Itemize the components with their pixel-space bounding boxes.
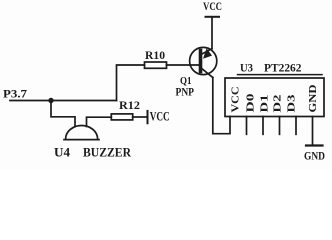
pin stub D0 [246, 117, 248, 135]
wire buzzer right terminal to R12 [87, 117, 112, 126]
wire R10 to Q1 base [167, 64, 200, 66]
wire collector down and to U3 pin VCC [213, 78, 230, 134]
power VCC bar (right) [147, 111, 149, 123]
svg-text:P3.7: P3.7 [3, 87, 27, 101]
wire P3.7 horizontal [10, 100, 117, 102]
wire junction to buzzer left terminal [51, 101, 75, 127]
pin stub D2 [279, 117, 281, 135]
transistor Q1 base bar [199, 51, 203, 72]
power VCC top bar [206, 16, 220, 18]
svg-text:PT2262: PT2262 [264, 62, 302, 74]
IC U3 box [225, 78, 324, 117]
ground bar [306, 144, 323, 146]
wire VCC to emitter [211, 17, 213, 49]
svg-text:R12: R12 [119, 98, 140, 112]
wire riser to R10 [117, 65, 145, 101]
junction dot [48, 98, 53, 103]
svg-text:VCC: VCC [150, 109, 170, 123]
svg-text:D0: D0 [246, 94, 257, 113]
transistor Q1 collector line [201, 68, 213, 78]
wire R12 to VCC bar [133, 116, 147, 118]
svg-text:U4: U4 [54, 145, 71, 160]
resistor R12 [111, 114, 132, 120]
svg-text:U3: U3 [240, 62, 253, 74]
transistor Q1 circle [190, 47, 217, 74]
svg-text:PNP: PNP [176, 85, 195, 99]
svg-text:R10: R10 [145, 48, 165, 62]
transistor Q1 emitter line [201, 49, 212, 55]
svg-text:D3: D3 [286, 95, 297, 113]
pin stub D3 [295, 117, 297, 135]
svg-text:VCC: VCC [203, 1, 222, 13]
svg-text:GND: GND [308, 84, 319, 112]
buzzer U4 dome [66, 126, 98, 140]
svg-text:BUZZER: BUZZER [83, 145, 132, 160]
transistor Q1 emitter arrow (PNP, points into base) [203, 48, 212, 59]
svg-text:VCC: VCC [230, 87, 241, 113]
svg-text:D2: D2 [273, 95, 284, 113]
svg-text:GND: GND [304, 148, 325, 162]
svg-text:D1: D1 [260, 95, 271, 113]
buzzer base line [64, 139, 99, 141]
pin wire GND [312, 117, 314, 146]
resistor R10 [145, 62, 167, 68]
pin stub D1 [262, 117, 264, 135]
underline below U3 PT2262 [238, 74, 323, 76]
